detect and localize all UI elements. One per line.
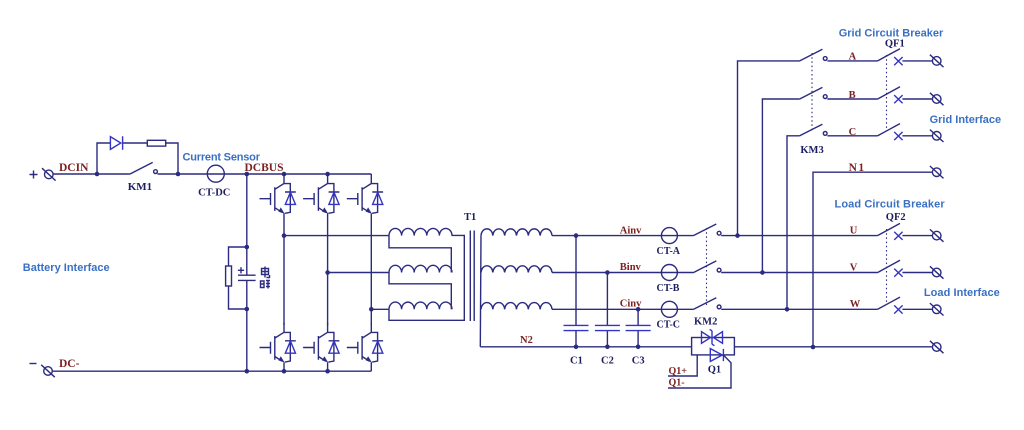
IGBT lower leg1 (260, 323, 296, 363)
wire leg1 middle (283, 214, 285, 325)
wire resistor branch (229, 247, 247, 309)
node N1 tap (811, 345, 816, 350)
terminal grid C (930, 130, 944, 142)
svg-text:C1: C1 (570, 356, 583, 367)
svg-text:Q1: Q1 (708, 364, 721, 375)
secondary winding B (481, 266, 552, 273)
node at bypass right (176, 172, 181, 177)
wire delta return 1 (389, 236, 451, 273)
svg-text:DCIN: DCIN (59, 162, 89, 174)
svg-text:DCBUS: DCBUS (245, 162, 284, 174)
plus mark battery (238, 267, 244, 273)
node C3 bottom (636, 345, 641, 350)
node C1 bottom (574, 345, 579, 350)
primary winding 3 (389, 302, 452, 309)
wire bypass branch (97, 143, 178, 174)
wire QF2 U to terminal (902, 235, 932, 237)
linkage QF2 (886, 229, 888, 305)
current transformer CT-B (661, 265, 677, 281)
wire N2 right (734, 346, 932, 348)
contactor KM2 pole A (693, 224, 721, 236)
terminal N2 (930, 341, 944, 353)
wire row B inverter (552, 272, 693, 274)
svg-text:KM2: KM2 (694, 316, 717, 327)
breaker QF2 pole V (877, 260, 902, 277)
svg-text:CT-C: CT-C (657, 320, 681, 331)
linkage QF1 (886, 55, 888, 131)
wire DC- bus (52, 370, 371, 372)
contactor KM1 (130, 162, 158, 174)
svg-text:CT-A: CT-A (657, 246, 681, 257)
resistor bypass (147, 140, 165, 146)
svg-text:T1: T1 (464, 212, 476, 223)
primary winding 2 (389, 265, 452, 272)
terminal load U (930, 229, 944, 241)
svg-text:Binv: Binv (620, 262, 642, 273)
node riser B (760, 270, 765, 275)
node bus leg2 (325, 172, 330, 177)
wire leg3 bottom (370, 362, 372, 371)
wire battery branch vertical (246, 174, 248, 371)
svg-text:Load Circuit Breaker: Load Circuit Breaker (835, 199, 946, 211)
wire KM3 C to QF1 (827, 135, 877, 137)
wire KM1 to CT-DC to DCBUS (158, 173, 285, 175)
terminal N1 (930, 166, 944, 178)
wire leg2 bottom (327, 362, 329, 371)
svg-text:Ainv: Ainv (620, 225, 642, 236)
current transformer CT-A (661, 228, 677, 244)
contactor KM2 pole B (693, 261, 721, 273)
wire row C inverter (552, 308, 693, 310)
contactor KM3 pole A (799, 49, 827, 61)
capacitor battery electrolytic (238, 275, 256, 280)
svg-text:QF2: QF2 (886, 212, 906, 223)
static switch box KM2 (692, 338, 735, 355)
capacitor C3 (626, 309, 651, 347)
svg-text:Battery Interface: Battery Interface (23, 262, 110, 274)
secondary winding A (481, 229, 552, 236)
svg-text:Load Interface: Load Interface (924, 287, 1000, 299)
contactor KM3 pole B (799, 87, 827, 99)
primary winding 1 (389, 228, 452, 235)
terminal load V (930, 266, 944, 278)
node phase1 tap (282, 233, 287, 238)
wire QF1 B to terminal (902, 98, 932, 100)
wire KM2 B out (721, 272, 877, 274)
capacitor C2 (595, 273, 620, 347)
IGBT upper leg3 (347, 174, 383, 214)
wire riser C (787, 136, 799, 309)
wire KM3 A to QF1 (827, 60, 877, 62)
wire riser A (738, 61, 800, 236)
node DC- leg1 (282, 369, 287, 374)
wire N1 (813, 172, 932, 347)
wire QF1 A to terminal (902, 60, 932, 62)
triac pair top (702, 329, 723, 345)
node phase3 tap (369, 307, 374, 312)
wire leg3 middle (370, 214, 372, 325)
linkage KM2 (706, 228, 708, 305)
terminal grid B (930, 93, 944, 105)
wire delta return 2 (389, 273, 451, 310)
label dianjie chinese (261, 267, 271, 289)
svg-text:KM3: KM3 (800, 145, 823, 156)
IGBT lower leg2 (303, 323, 339, 363)
svg-text:Q1+: Q1+ (669, 366, 688, 377)
wire phase2 to transformer (328, 272, 389, 274)
breaker QF1 pole A (877, 49, 902, 66)
wire KM2 A out (721, 235, 877, 237)
wire delta return 3 (389, 235, 464, 320)
breaker QF1 pole C (877, 124, 902, 141)
wire phase3 to transformer (371, 308, 389, 310)
linkage KM3 (811, 53, 813, 132)
breaker QF2 pole W (877, 297, 902, 314)
node DCBUS (245, 172, 250, 177)
node battery top (245, 245, 250, 250)
svg-text:KM1: KM1 (128, 181, 152, 193)
node bus leg1 (282, 172, 287, 177)
svg-text:W: W (850, 299, 861, 310)
node DC- battery (245, 369, 250, 374)
plus terminal DCIN (30, 168, 56, 180)
svg-text:V: V (850, 263, 858, 274)
svg-text:C2: C2 (601, 356, 614, 367)
wire secondary neutral bus (479, 236, 482, 347)
thyristor Q1 (668, 349, 731, 388)
minus terminal DC- (30, 364, 55, 378)
wire DC+ bus top (284, 173, 371, 175)
wire riser B (762, 99, 799, 273)
node C2 top (605, 270, 610, 275)
contactor KM2 pole C (693, 298, 721, 310)
wire KM3 B to QF1 (827, 98, 877, 100)
node phase2 tap (325, 270, 330, 275)
node riser C (785, 307, 790, 312)
wire leg2 middle (327, 214, 329, 325)
node riser A (735, 233, 740, 238)
node C1 top (574, 233, 579, 238)
wire QF2 V to terminal (902, 272, 932, 274)
capacitor C1 (564, 236, 589, 347)
wire phase1 to transformer (284, 235, 389, 237)
current transformer CT-C (661, 301, 677, 317)
node C3 top (636, 307, 641, 312)
breaker QF2 pole U (877, 223, 902, 240)
IGBT upper leg1 (260, 174, 296, 214)
svg-text:Q1-: Q1- (669, 378, 685, 389)
svg-text:DC-: DC- (59, 358, 80, 370)
wire KM2 C out (721, 308, 877, 310)
transformer T1 core (470, 231, 474, 322)
breaker QF1 pole B (877, 87, 902, 104)
node battery bottom (245, 307, 250, 312)
secondary winding C (481, 303, 552, 310)
current sensor CT-DC (207, 165, 224, 182)
svg-text:U: U (850, 226, 858, 237)
wire QF2 W to terminal (902, 308, 932, 310)
contactor KM3 pole C (799, 124, 827, 136)
wire row A inverter (552, 235, 693, 237)
svg-text:QF1: QF1 (885, 39, 905, 50)
svg-text:Grid Interface: Grid Interface (930, 114, 1002, 126)
node at bypass left (95, 172, 100, 177)
svg-text:C3: C3 (632, 356, 645, 367)
wire DC+ from terminal to KM1 (53, 173, 129, 175)
wire leg1 bottom (283, 362, 285, 371)
node C2 bottom (605, 345, 610, 350)
wire QF1 C to terminal (902, 135, 932, 137)
terminal load W (930, 303, 944, 315)
IGBT upper leg2 (303, 174, 339, 214)
wire N2 left (480, 346, 691, 348)
node DC- leg2 (325, 369, 330, 374)
svg-text:CT-DC: CT-DC (198, 188, 230, 199)
diode bypass (110, 136, 122, 149)
svg-text:CT-B: CT-B (657, 283, 680, 294)
resistor battery (226, 266, 232, 286)
IGBT lower leg3 (347, 323, 383, 363)
svg-text:N2: N2 (520, 335, 533, 346)
terminal grid A (930, 55, 944, 67)
